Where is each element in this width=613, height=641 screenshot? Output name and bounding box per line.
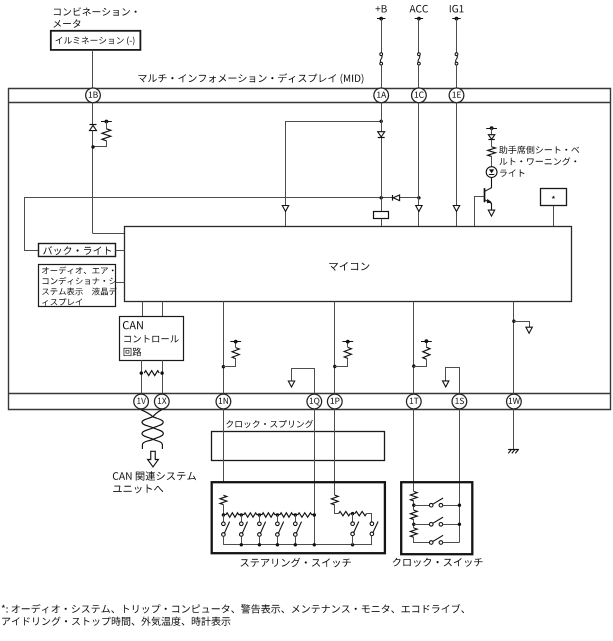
node ladder 0 [222,513,225,516]
terminal 1Q [307,394,322,409]
diode D3 on 1A line [378,132,385,137]
wire R15 to corner [367,514,372,523]
clock switch box [401,482,472,554]
resistor R3 (CAN termination) [144,371,159,376]
label seat belt warning light [499,146,579,154]
switch SW5 (steering) [295,515,297,522]
wire 1A feed to microcomputer input [286,122,382,227]
terminal 1T [406,394,421,409]
resistor R16 [410,492,417,501]
diode D1 on 1B line [90,125,97,130]
wire 1S down [459,409,461,543]
label steering switch [241,558,351,567]
wire 1Q stub [292,369,315,395]
wire 1T from microcomputer [413,301,415,394]
terminal 1A [374,88,389,103]
wire 1W to ground [513,409,515,449]
ground bus in steering box [223,544,372,546]
diode D4 [488,135,494,140]
wire to node [350,513,355,515]
wire LCD to microcomputer [115,282,124,284]
wire +B [381,19,383,53]
wire illumination to 1B [92,50,94,88]
wire 1N through clock spring [223,409,225,482]
terminal 1W [507,394,522,409]
node clock 1 [412,504,415,507]
ACC supply [410,5,429,13]
wire lamp to transistor collector [485,178,492,192]
switch SW9 (clock) [429,523,433,527]
wire 1C down [418,103,420,227]
resistor R12 (ladder) [298,513,312,517]
node clock right 1 [458,504,461,507]
wire 1W from microcomputer [513,301,515,394]
node at 1A line [380,196,383,199]
power feed for pull-up R1 [101,121,112,123]
resistor R2 (lamp series) [488,147,496,157]
wire to pull-up R5 [335,358,348,366]
power feed seat-belt branch [486,128,497,130]
back light box [39,244,116,257]
arrow 1S stub [443,381,449,387]
resistor R15 [355,511,367,515]
power feed R5 [342,341,353,343]
terminal 1P [327,394,342,409]
wire illumination net [25,198,419,251]
resistor R8 (ladder) [226,513,239,517]
terminal 1V [134,394,149,409]
resistor R13 (1P series) [331,495,338,505]
label CAN related system units [113,471,196,481]
wire R2 to lamp [491,156,493,166]
node ladder 1 [240,513,243,516]
MID title [138,73,363,84]
node 1W junction [512,320,515,323]
node CAN-H [160,371,163,374]
wire R1 bottom [95,141,107,147]
resistor R14 [339,511,351,515]
wire microcomputer to CAN box (left) [142,301,144,316]
wire microcomputer to CAN box (right) [162,301,164,316]
wire to pull-up R4 [223,359,235,367]
arrow below emitter [488,210,494,216]
switch SW8 (clock) [429,503,433,507]
illumination box (combination meter) [51,31,141,50]
terminal 1E [449,88,464,103]
wire R13 down [335,505,339,514]
node 1P junction [333,365,336,368]
wire D4 to R2 [491,140,493,147]
resistor R4 pull-up [232,348,239,359]
wire CAN-H down [162,360,164,394]
diode D2 (ACC to illumination net) [393,195,399,201]
wire * box to microcomputer [553,206,555,227]
node CAN-L [140,371,143,374]
transistor Q1 base bar [484,188,486,202]
arrow into microcomputer (ACC feed) [282,206,288,212]
wire 1P from microcomputer [334,301,336,394]
wire clock row 1 left [414,505,430,507]
wire CAN-L down [141,360,143,394]
wire R7 to ladder [223,505,225,515]
resistor R11 (ladder) [280,513,293,517]
microcomputer box U1 [125,227,572,302]
connector IG1 [455,53,458,56]
twisted pair CAN bus [141,410,163,449]
node clock 2 [412,523,415,526]
connector ACC [418,53,421,56]
terminal 1N [216,394,231,409]
wire 1N from microcomputer [223,301,225,394]
power feed R4 [230,341,241,343]
arrow 1W branch [526,327,532,333]
node ladder 5 [313,513,316,516]
connector +B [380,53,383,56]
node 1B-junction [91,145,94,148]
terminal 1X [154,394,169,409]
wire clock row 2 right [443,524,460,526]
switch SW2 (steering) [241,515,243,522]
wire 1Q through clock spring [314,409,316,545]
footnote line 1 [2,604,465,614]
arrow into microcomputer 1E [453,206,459,212]
wire 1B to microcomputer [93,233,125,235]
label clock spring [226,420,313,428]
node clock right 2 [458,523,461,526]
wire into microcomputer 1A [381,219,383,227]
wire Q1 base to microcomputer [475,197,485,227]
label clock switch [393,558,483,567]
combination meter label [54,7,137,16]
node at 1C line [417,196,420,199]
terminal 1S [452,394,467,409]
steering switch box [212,482,385,553]
wire back light to microcomputer [115,250,124,252]
resistor R1 pull-up [102,129,111,141]
wire R5 top [347,342,349,348]
seat belt warning light L1 [486,167,497,178]
wire ACC [418,19,420,53]
wire IG1 [456,19,458,53]
component box (filter) on 1A line [374,212,389,219]
resistor R6 pull-up [423,347,430,359]
wire 1E down [456,103,458,227]
node 1N junction [222,365,225,368]
resistor R5 pull-up [344,347,351,358]
node ladder 2 [258,513,261,516]
wire below D1 [92,131,94,234]
switch SW10 (clock) [429,541,433,545]
wire 1W branch [514,322,530,328]
CAN control circuit box [120,317,184,361]
switch SW7 [370,522,374,526]
resistor R9 (ladder) [244,513,257,517]
wire clock row 1 right [443,505,460,507]
block arrow to CAN system units [148,451,159,467]
footnote line 2 [2,617,230,626]
node 1P ladder [351,512,354,515]
wire 1B down [92,103,94,125]
wire +B lower [381,65,383,88]
+B supply [376,5,387,12]
node ladder 3 [276,513,279,516]
resistor R7 (1N series) [220,495,227,504]
node ladder 4 [294,513,297,516]
resistor R18 [410,528,417,537]
wire 1T down [413,409,415,492]
node 1T junction [412,364,415,367]
switch SW1 (steering) [223,515,225,522]
wire 1P through clock spring [334,409,336,495]
transistor Q1 emitter [485,200,492,211]
arrow 1Q stub [288,381,294,387]
resistor R10 (ladder) [262,513,275,517]
resistor R17 [410,510,417,519]
wire R1 top [106,122,108,129]
ground [508,449,519,451]
IG1 supply [450,5,464,13]
MID unit outer box [9,89,611,410]
wire ACC lower [418,65,420,88]
wire R16-R17 [413,501,415,510]
wire R18 corner [414,537,430,542]
node 1A upper junction [380,120,383,123]
wire to D4 [491,128,493,135]
wire clock row 2 left [414,524,430,526]
terminal 1B [86,88,101,103]
display segment box (*) [541,189,567,206]
wire 1A down [381,103,383,212]
wire to pull-up R6 [414,359,427,366]
switch SW4 (steering) [277,515,279,522]
switch SW3 (steering) [259,515,261,522]
wire R17-R18 [413,520,415,528]
wire R6 top [426,341,428,347]
clock spring box [212,432,385,461]
terminal 1C [412,88,427,103]
power feed R6 [421,341,432,343]
switch SW6 [352,514,354,522]
wire IG1 lower [456,65,458,88]
wire clock row 3 right [443,542,460,544]
wire 1S stub [446,368,460,395]
audio/aircon LCD box [39,265,116,307]
wire R4 top [235,342,237,348]
arrow into microcomputer 1C [416,206,422,212]
